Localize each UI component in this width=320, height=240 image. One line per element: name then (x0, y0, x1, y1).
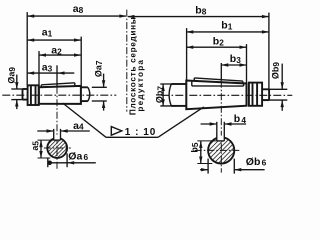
extension lines a4 above slot (53, 129, 55, 132)
extension lines b4 above slot (216, 122, 218, 132)
extension line at section plane (left) (56, 65, 58, 87)
section B circle (208, 137, 234, 163)
svg-text:a8: a8 (73, 3, 84, 15)
dimension b1 (186, 30, 269, 33)
taper flag leader left (63, 103, 106, 137)
dimension dia a7 (102, 74, 105, 111)
svg-text:Øb6: Øb6 (246, 156, 267, 168)
extension lines b5 (197, 140, 217, 142)
section B hatch (209, 138, 234, 163)
dimension a5 (39, 140, 42, 158)
svg-text:b4: b4 (234, 113, 247, 125)
dimension b3 (221, 63, 246, 66)
dimension a3 (27, 71, 74, 74)
svg-text:Øa7: Øa7 (93, 60, 104, 77)
svg-text:a1: a1 (42, 27, 53, 39)
extension line at cone big end (left) (80, 37, 82, 86)
right shaft protruding key (194, 78, 243, 84)
dimension b5 (199, 141, 202, 164)
section B vertical center line (220, 81, 222, 173)
dimension dia a9 (15, 75, 18, 110)
svg-text:a3: a3 (42, 62, 53, 74)
right shaft keyway slot bottom (192, 81, 244, 86)
right shaft nut (249, 83, 262, 106)
extension lines a5 (38, 139, 54, 141)
dimension a8 (27, 14, 126, 17)
right shaft cone (186, 81, 246, 110)
dimension dia a6 (47, 153, 95, 167)
extension line at nut outer face (left) (26, 12, 28, 85)
left shaft journal with break arc (81, 87, 90, 101)
dimension a2 (39, 53, 81, 56)
extension line at cone small end (right) (246, 44, 248, 83)
extension line at stub end (right) (268, 13, 270, 90)
svg-text:Øa9: Øa9 (6, 67, 17, 84)
extension lines dia a7 (92, 86, 107, 88)
dimension b2 (186, 46, 246, 49)
svg-text:b2: b2 (213, 36, 224, 48)
section A hatch (48, 139, 66, 157)
dimension dia b9 (281, 64, 284, 111)
svg-text:b5: b5 (189, 142, 200, 153)
svg-text:b1: b1 (221, 20, 232, 32)
section B horizontal center line (195, 149, 241, 151)
svg-text:1 : 10: 1 : 10 (125, 127, 157, 138)
extension lines dia b7 (160, 83, 176, 85)
left shaft horizontal center line (2, 94, 116, 96)
svg-text:Øb7: Øb7 (155, 86, 166, 104)
section A circle (47, 138, 67, 158)
extension line at nut inner face (left) (38, 51, 40, 85)
taper flag shelf (106, 136, 158, 138)
extension lines dia a9 (11, 88, 22, 90)
dimension a1 (27, 38, 81, 41)
taper symbol (111, 127, 122, 136)
right shaft stub (thread end) (262, 89, 269, 100)
right shaft horizontal center line (161, 94, 292, 96)
right shaft journal with break arc (169, 84, 186, 106)
dimension b4 (201, 122, 247, 125)
extension line at cone big end (right) (186, 28, 188, 80)
middle plane center line (126, 10, 128, 112)
svg-text:b3: b3 (230, 53, 241, 65)
extension line at section plane (right) (220, 63, 222, 81)
left shaft stub (thread end) (23, 89, 28, 100)
left shaft cone (39, 86, 81, 104)
dimension a4 (37, 129, 90, 132)
taper flag leader right (158, 107, 204, 137)
section A keyway slot (54, 132, 61, 141)
dimension dia b7 (161, 84, 164, 106)
svg-text:a4: a4 (73, 120, 84, 132)
section A vertical center line (56, 87, 58, 169)
svg-text:b8: b8 (195, 5, 206, 17)
svg-text:a2: a2 (51, 45, 62, 57)
dimension b8 (127, 15, 269, 18)
dimension dia b6 (200, 159, 264, 174)
svg-text:a5: a5 (30, 141, 41, 151)
section B keyway slot (217, 132, 225, 141)
left shaft protruding key (41, 83, 75, 87)
left shaft nut (28, 85, 39, 105)
svg-text:редуктора: редуктора (136, 59, 145, 112)
svg-text:Øb9: Øb9 (270, 62, 281, 80)
svg-text:Øa6: Øa6 (68, 150, 88, 162)
section A horizontal center line (44, 147, 71, 149)
extension lines dia b9 (262, 88, 287, 90)
